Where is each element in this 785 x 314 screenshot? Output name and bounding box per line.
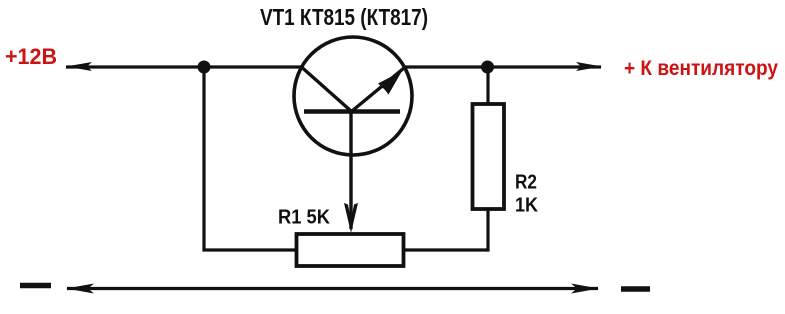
wire top rail right segment xyxy=(405,65,601,68)
arrowhead top rail left xyxy=(66,62,92,71)
resistor R2 xyxy=(473,104,505,209)
minus terminal mark right xyxy=(621,286,650,292)
wire R2 top lead xyxy=(486,67,489,104)
potentiometer R1 xyxy=(297,234,404,266)
svg-text:+ К вентилятору: + К вентилятору xyxy=(624,57,778,80)
svg-text:+12В: +12В xyxy=(5,44,57,69)
svg-text:VT1 КТ815 (КТ817): VT1 КТ815 (КТ817) xyxy=(260,4,428,30)
wire from node A down and right to R1 left terminal xyxy=(204,67,296,250)
svg-text:R2: R2 xyxy=(515,172,537,194)
wire top rail left segment xyxy=(66,65,301,68)
arrowhead bottom rail right xyxy=(571,284,599,294)
wire bottom minus rail xyxy=(67,287,598,290)
transistor VT1 xyxy=(294,37,412,229)
label R2 xyxy=(515,172,537,194)
label R1 5K xyxy=(278,207,330,229)
label VT1 КТ815 (КТ817) xyxy=(260,4,428,30)
label 1K xyxy=(515,195,538,217)
arrowhead top rail right xyxy=(576,62,602,71)
junction node B (top rail / R2 branch) xyxy=(481,61,494,74)
wire R2 bottom lead xyxy=(486,207,489,252)
svg-text:1K: 1K xyxy=(515,195,538,217)
net label +12V xyxy=(5,44,57,69)
svg-text:R1 5K: R1 5K xyxy=(278,207,330,229)
minus terminal mark left xyxy=(20,283,51,289)
wiper arrowhead into R1 xyxy=(344,203,358,233)
wire R1 right terminal to R2 branch xyxy=(403,248,488,251)
net label + К вентилятору xyxy=(624,57,778,80)
junction node A (top rail / R1 branch) xyxy=(198,61,211,74)
arrowhead bottom rail left xyxy=(66,284,94,294)
